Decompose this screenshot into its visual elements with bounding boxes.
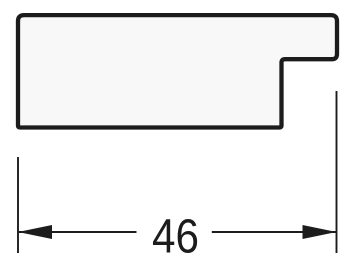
left extension line (17, 157, 19, 253)
frame moulding profile outline (18, 15, 337, 127)
svg-text:46: 46 (152, 209, 199, 261)
left arrowhead (18, 225, 52, 239)
dimension line right segment (212, 231, 337, 233)
dimension line left segment (18, 231, 137, 233)
right arrowhead (303, 225, 337, 239)
right extension line (336, 91, 338, 253)
